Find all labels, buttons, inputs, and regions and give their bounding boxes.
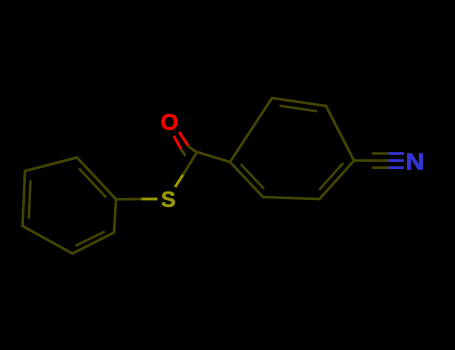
triple bond C#N blue half middle <box>389 159 405 162</box>
svg-text:N: N <box>406 150 425 176</box>
bond S-C(=O) yellow half <box>175 174 184 187</box>
svg-text:O: O <box>160 109 178 135</box>
bond C=O red line main <box>179 132 189 146</box>
benzene ring right 4-cyanophenyl outline <box>230 98 354 199</box>
inner double bond V3-V4 <box>29 180 31 219</box>
bond C(=O)-ring <box>197 152 230 162</box>
bond C=O red line offset <box>174 136 182 150</box>
inner double bond k4-k5 <box>280 106 318 112</box>
triple bond C#N dark half bottom <box>372 166 389 169</box>
bond C=O dark continuation offset <box>181 150 185 155</box>
bond phenyl-S dark half <box>116 198 142 201</box>
triple bond C#N blue half top <box>389 152 405 155</box>
triple bond C#N dark half middle <box>354 159 389 162</box>
benzene ring left phenyl outline <box>23 158 117 254</box>
inner double bond k2-Wl <box>241 164 264 189</box>
svg-text:S: S <box>161 187 176 212</box>
atom N label <box>406 150 425 176</box>
inner double bond V5-V6 <box>76 232 105 246</box>
inner double bond V1-V2 <box>79 168 106 197</box>
bond phenyl-S yellow half <box>142 198 158 201</box>
bond C=O dark continuation main <box>189 146 197 152</box>
inner double bond Wr-k1 <box>319 163 343 190</box>
triple bond C#N dark half top <box>372 152 389 155</box>
bond S-C(=O) dark half <box>184 152 197 174</box>
triple bond C#N blue half bottom <box>389 166 405 169</box>
